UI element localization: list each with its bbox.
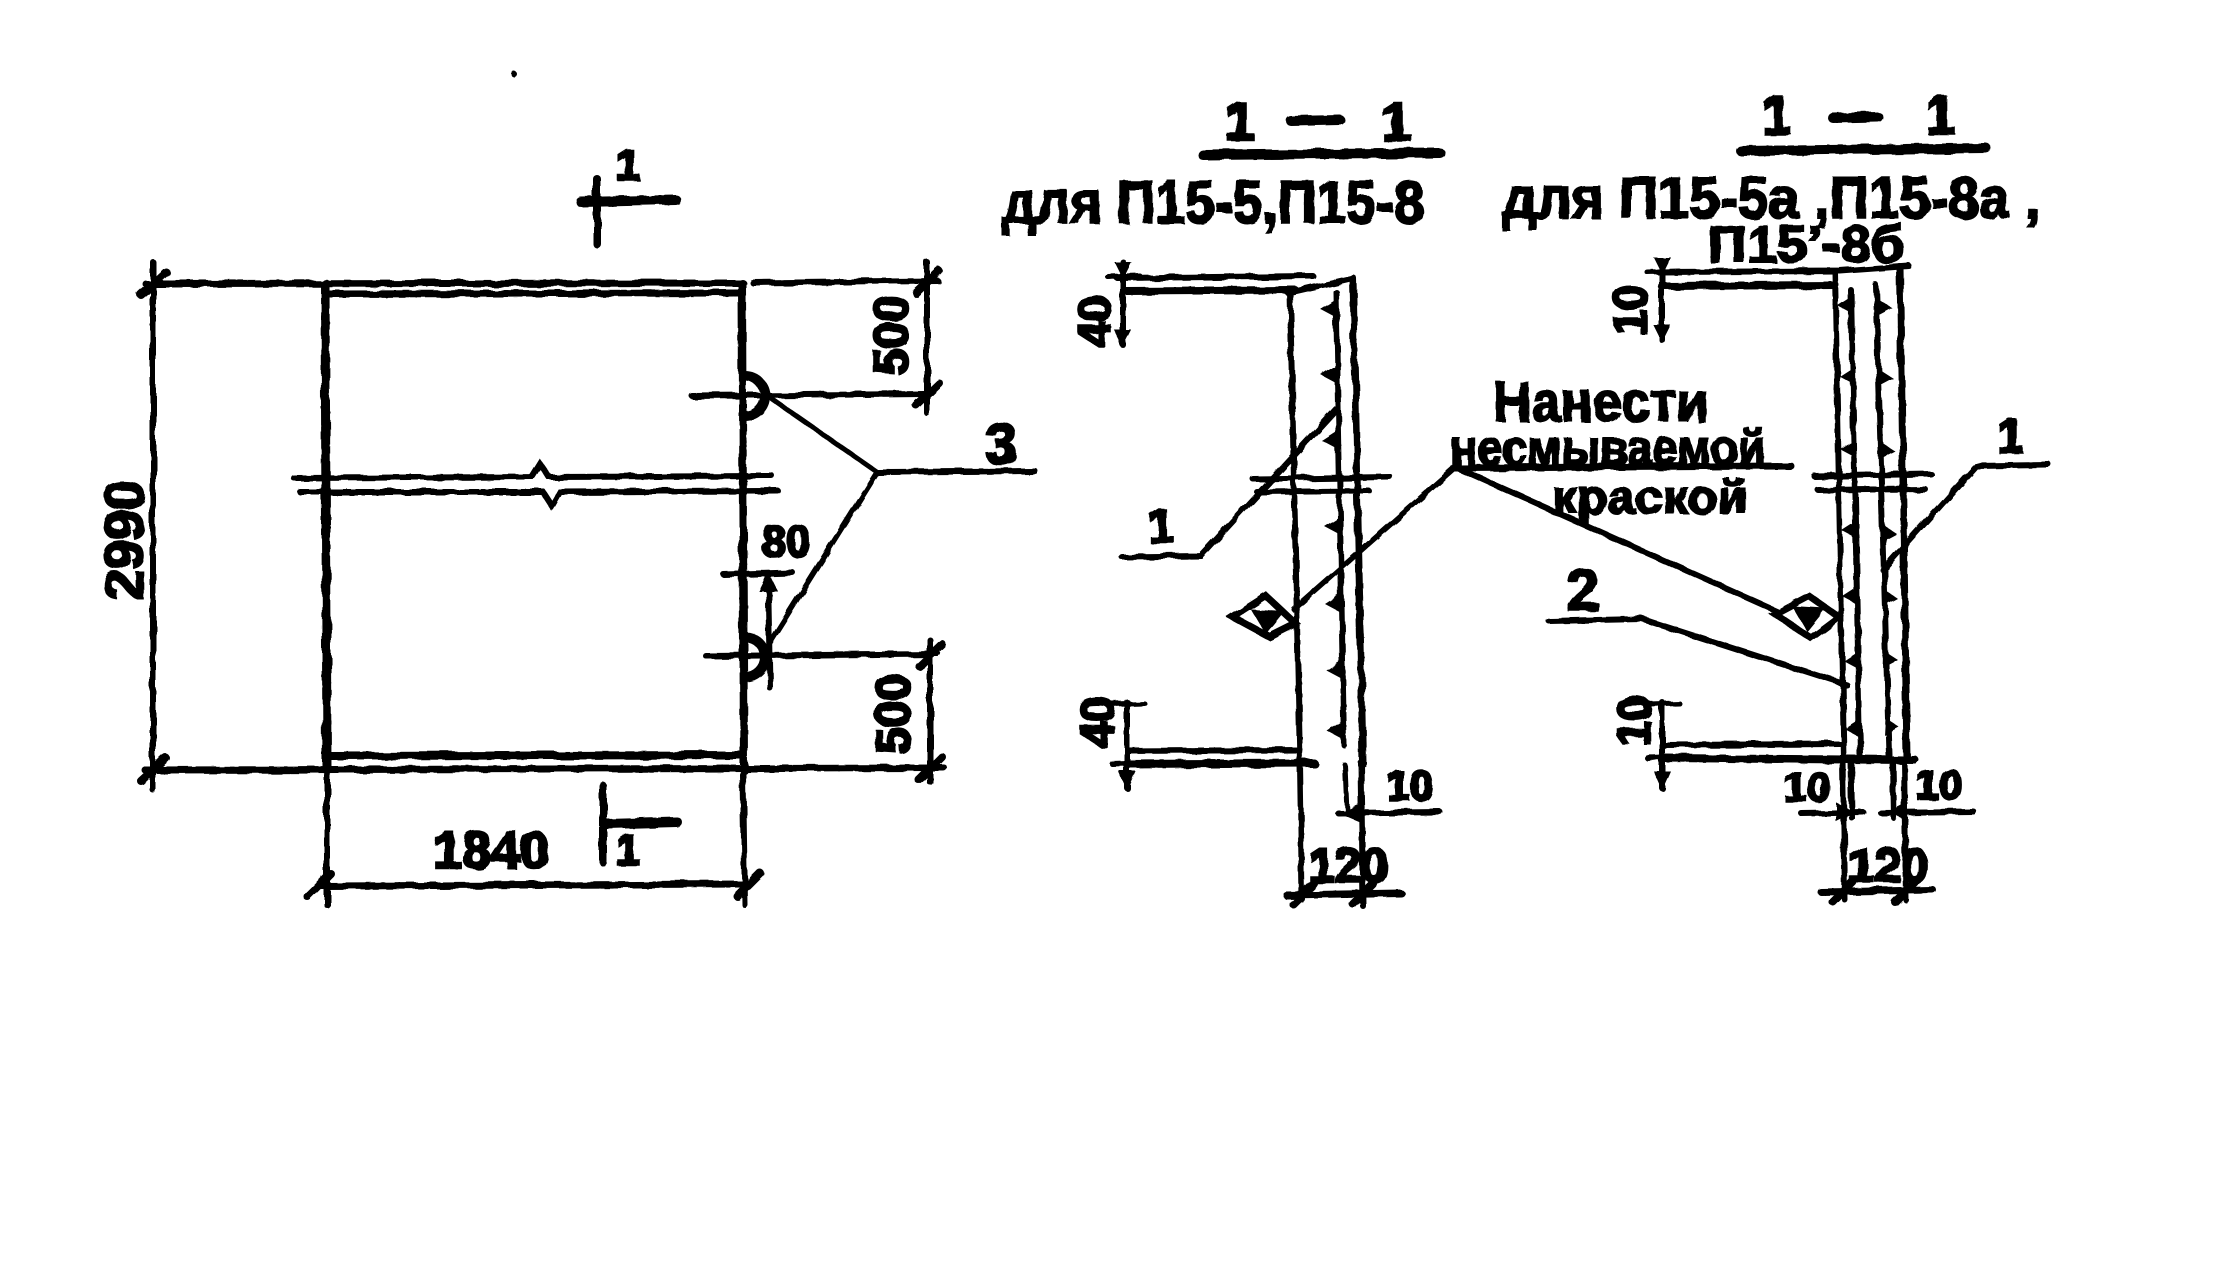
dimension 500 top right — [753, 262, 939, 413]
panel top edge — [146, 283, 743, 294]
dimension 40 top — [1068, 262, 1140, 347]
dimension 10 top right section — [1604, 258, 1679, 340]
middle section rebar mesh — [1320, 292, 1344, 745]
svg-text:1: 1 — [1762, 86, 1792, 146]
svg-text:1: 1 — [1381, 92, 1411, 152]
header 1-1 right — [1741, 86, 1986, 151]
lifting loop top — [692, 376, 924, 416]
dimension 10 bottom pair right section — [1784, 761, 1974, 820]
middle section body — [1288, 278, 1363, 763]
svg-text:500: 500 — [868, 674, 921, 754]
dimension 10 middle bottom — [1338, 762, 1440, 821]
dimension 120 right — [1821, 840, 1933, 902]
svg-text:10: 10 — [1608, 695, 1660, 746]
svg-text:1840: 1840 — [433, 822, 549, 880]
leader label 1 right — [1883, 411, 2049, 570]
note text нанести несмываемой краской — [1450, 370, 1791, 523]
svg-text:1: 1 — [1148, 500, 1174, 552]
dimension 2990 — [94, 262, 166, 790]
right section rebar mesh right — [1876, 285, 1899, 755]
lifting loop bottom — [706, 637, 938, 677]
right section top flange — [1658, 266, 1909, 286]
svg-text:2990: 2990 — [94, 480, 154, 600]
middle section bottom extensions — [1300, 763, 1363, 906]
svg-text:1: 1 — [1225, 92, 1255, 152]
svg-text:10: 10 — [1784, 763, 1831, 810]
panel left edge — [325, 283, 327, 770]
paint mark diamond right — [1775, 596, 1839, 638]
panel bottom edge — [145, 755, 944, 770]
section mark 1 bottom — [603, 786, 677, 875]
break line across panel — [294, 464, 778, 506]
svg-text:1: 1 — [616, 826, 640, 875]
svg-text:40: 40 — [1071, 696, 1123, 747]
right section body — [1835, 267, 1907, 760]
dimension 40 bottom — [1071, 696, 1144, 788]
leader label 3 — [768, 399, 1035, 646]
svg-text:П15ʼ-8б: П15ʼ-8б — [1708, 216, 1905, 274]
leader to middle diamond — [1294, 467, 1455, 609]
svg-text:10: 10 — [1604, 284, 1656, 335]
panel right edge — [742, 283, 744, 770]
dimension 120 middle — [1286, 840, 1401, 904]
svg-text:500: 500 — [866, 295, 919, 375]
section mark 1 top — [581, 141, 676, 244]
svg-text:для П15-5,П15-8: для П15-5,П15-8 — [1002, 169, 1424, 236]
svg-text:10: 10 — [1387, 762, 1434, 809]
right section bottom extensions — [1843, 760, 1906, 900]
right section rebar mesh left — [1838, 290, 1860, 755]
svg-text:1: 1 — [616, 141, 640, 190]
leader to right diamond — [1455, 467, 1779, 612]
paint mark diamond middle — [1233, 596, 1296, 637]
dimension 500 bottom right — [756, 640, 944, 782]
right section break lines — [1814, 474, 1931, 490]
svg-text:10: 10 — [1916, 761, 1963, 808]
svg-text:40: 40 — [1068, 295, 1120, 346]
svg-text:1: 1 — [1998, 411, 2025, 464]
dimension 1840 — [308, 775, 760, 905]
middle section bottom flange — [1127, 750, 1314, 764]
svg-text:1: 1 — [1926, 86, 1956, 146]
middle section break lines — [1253, 477, 1390, 492]
svg-text:120: 120 — [1848, 840, 1928, 893]
svg-text:3: 3 — [985, 412, 1017, 477]
header 1-1 middle — [1203, 92, 1440, 155]
svg-text:80: 80 — [762, 517, 811, 566]
right section bottom flange — [1662, 744, 1915, 760]
leader label 2 — [1549, 558, 1847, 685]
svg-text:краской: краской — [1552, 471, 1748, 523]
dimension 10 bottom left right section — [1608, 695, 1679, 788]
leader label 1 middle — [1122, 409, 1336, 557]
dimension 80 — [724, 517, 810, 688]
middle section top flange — [1117, 276, 1313, 291]
svg-text:120: 120 — [1308, 840, 1388, 893]
stray speck — [511, 71, 517, 77]
svg-text:2: 2 — [1567, 558, 1599, 623]
